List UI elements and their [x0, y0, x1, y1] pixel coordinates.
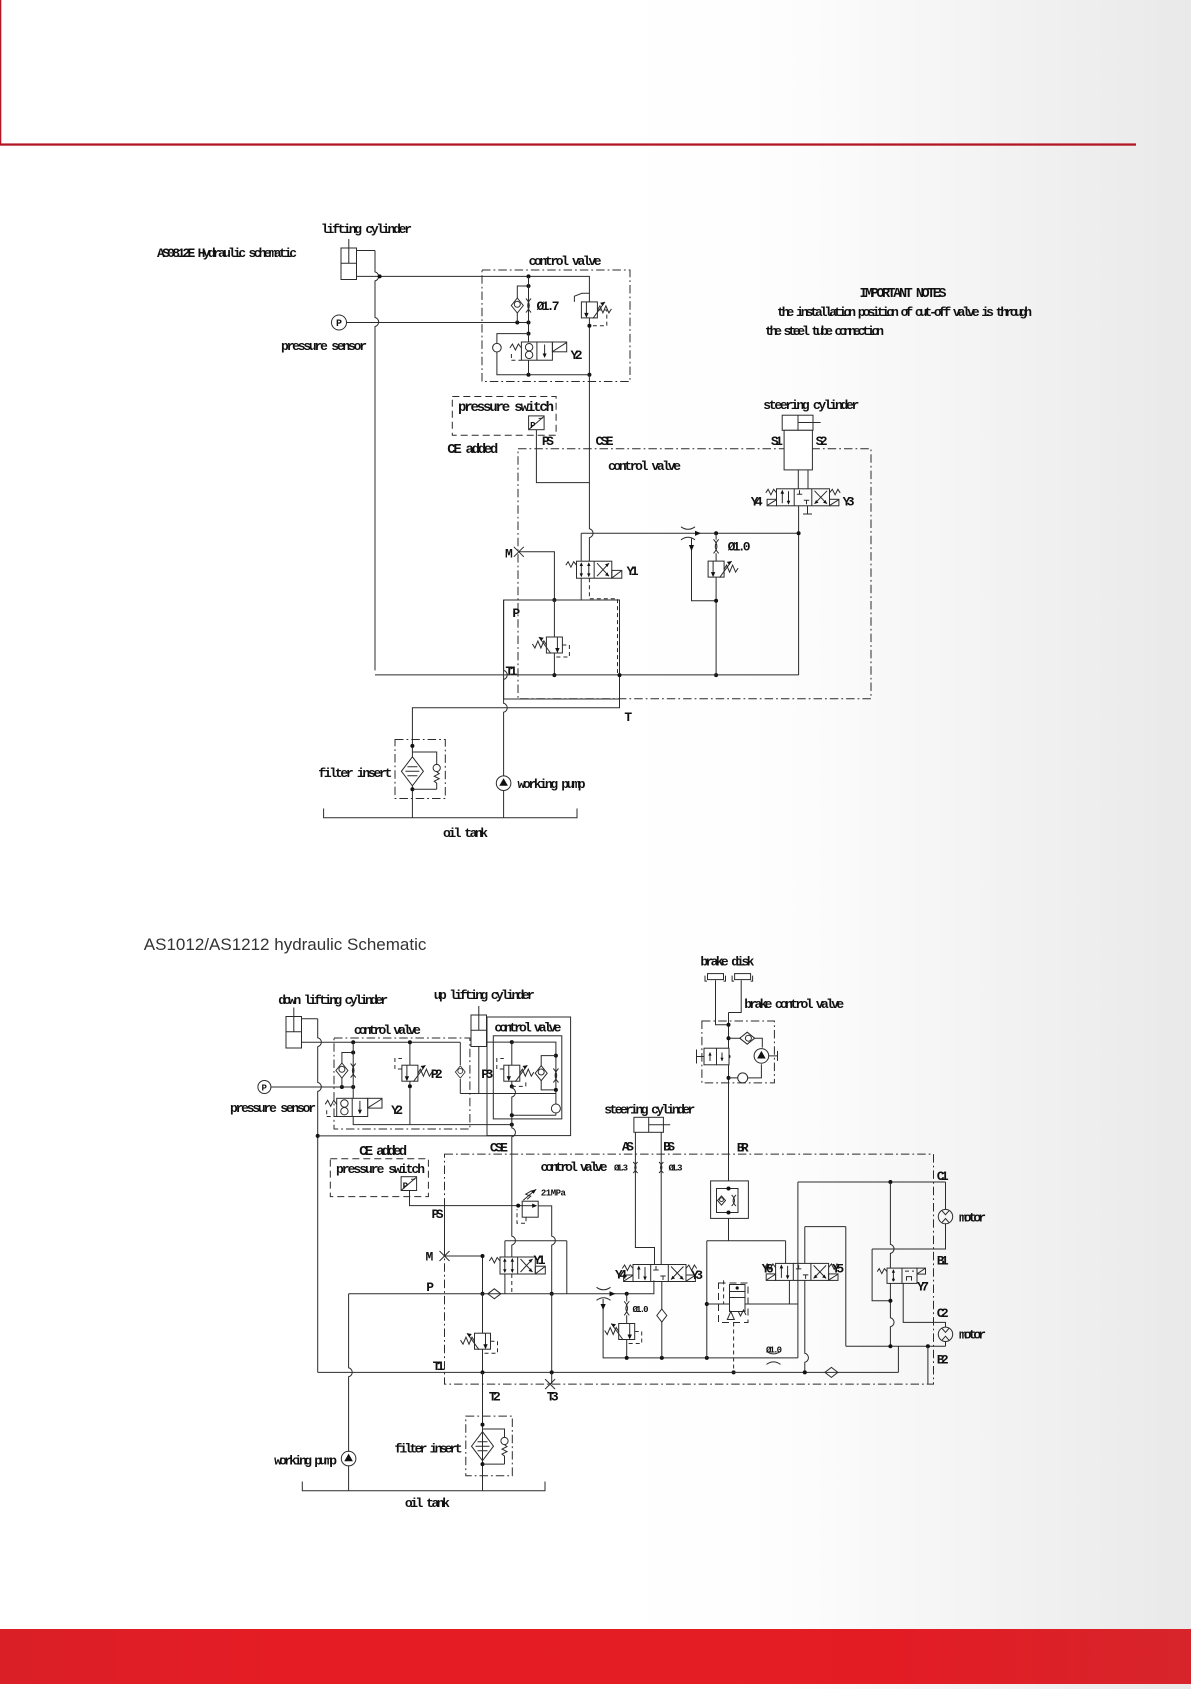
- svg-text:S2: S2: [816, 434, 828, 449]
- svg-text:P2: P2: [431, 1067, 443, 1082]
- svg-text:pressure sensor: pressure sensor: [230, 1101, 316, 1116]
- svg-text:IMPORTANT NOTES: IMPORTANT NOTES: [860, 287, 947, 302]
- svg-text:C2: C2: [937, 1306, 949, 1321]
- svg-text:control valve: control valve: [529, 254, 602, 269]
- svg-text:21MPa: 21MPa: [541, 1189, 567, 1199]
- svg-text:filter insert: filter insert: [395, 1442, 463, 1457]
- svg-text:PS: PS: [432, 1207, 444, 1222]
- svg-text:C1: C1: [937, 1169, 949, 1184]
- svg-text:working pump: working pump: [518, 777, 586, 792]
- svg-text:Y3: Y3: [691, 1268, 703, 1283]
- svg-text:oil tank: oil tank: [405, 1496, 450, 1511]
- svg-text:Y4: Y4: [751, 495, 763, 510]
- svg-text:BS: BS: [663, 1140, 675, 1155]
- svg-text:steering cylinder: steering cylinder: [604, 1103, 695, 1118]
- svg-text:down lifting cylinder: down lifting cylinder: [278, 993, 388, 1008]
- svg-text:T1: T1: [433, 1359, 445, 1374]
- svg-text:M: M: [426, 1250, 434, 1265]
- svg-text:Y1: Y1: [534, 1253, 546, 1268]
- svg-text:Ø1.0: Ø1.0: [766, 1346, 782, 1356]
- svg-text:Ø1.3: Ø1.3: [614, 1164, 628, 1174]
- svg-text:oil tank: oil tank: [443, 826, 488, 841]
- svg-text:brake disk: brake disk: [700, 955, 754, 970]
- svg-text:Y4: Y4: [615, 1268, 627, 1283]
- svg-text:the installation position of c: the installation position of cut-off val…: [777, 305, 1032, 320]
- svg-text:lifting cylinder: lifting cylinder: [321, 222, 412, 237]
- svg-text:S1: S1: [771, 434, 783, 449]
- svg-text:B2: B2: [937, 1353, 949, 1368]
- svg-text:Y1: Y1: [627, 564, 639, 579]
- svg-text:pressure switch: pressure switch: [336, 1162, 425, 1177]
- svg-text:filter insert: filter insert: [318, 766, 392, 781]
- svg-text:Y3: Y3: [843, 495, 855, 510]
- svg-text:P3: P3: [481, 1067, 493, 1082]
- svg-text:T2: T2: [489, 1390, 501, 1405]
- svg-text:Ø1.3: Ø1.3: [669, 1164, 683, 1174]
- svg-text:working pump: working pump: [274, 1454, 337, 1469]
- svg-text:Y5: Y5: [832, 1262, 844, 1277]
- svg-text:T: T: [624, 710, 632, 725]
- svg-text:Y2: Y2: [571, 348, 583, 363]
- svg-text:P: P: [426, 1280, 434, 1295]
- svg-text:BR: BR: [737, 1141, 749, 1156]
- svg-text:up lifting cylinder: up lifting cylinder: [434, 988, 535, 1003]
- svg-text:CE added: CE added: [359, 1144, 407, 1160]
- svg-text:AS1012/AS1212 hydraulic Schema: AS1012/AS1212 hydraulic Schematic: [144, 935, 427, 954]
- svg-text:Ø1.7: Ø1.7: [537, 299, 560, 314]
- svg-text:the steel tube connection: the steel tube connection: [765, 324, 884, 339]
- svg-text:P: P: [336, 319, 342, 330]
- svg-text:CSE: CSE: [596, 434, 614, 449]
- svg-text:T3: T3: [547, 1390, 559, 1405]
- svg-text:Ø1.0: Ø1.0: [728, 540, 751, 555]
- svg-text:motor: motor: [959, 1211, 986, 1226]
- svg-text:brake control valve: brake control valve: [744, 997, 844, 1012]
- svg-text:motor: motor: [959, 1328, 986, 1343]
- svg-text:CE added: CE added: [447, 442, 498, 458]
- svg-text:CSE: CSE: [490, 1141, 508, 1156]
- svg-text:Y6: Y6: [762, 1262, 774, 1277]
- svg-text:Y7: Y7: [917, 1280, 929, 1295]
- svg-text:B1: B1: [937, 1254, 949, 1269]
- svg-text:PS: PS: [542, 434, 554, 449]
- svg-text:steering cylinder: steering cylinder: [763, 398, 859, 413]
- svg-text:Ø1.0: Ø1.0: [633, 1305, 649, 1315]
- svg-text:P: P: [262, 1084, 268, 1094]
- svg-text:control valve: control valve: [494, 1021, 561, 1036]
- svg-text:AS0812E Hydraulic schematic: AS0812E Hydraulic schematic: [157, 246, 297, 261]
- svg-text:control valve: control valve: [608, 459, 681, 474]
- svg-text:pressure switch: pressure switch: [458, 400, 554, 416]
- svg-text:control valve: control valve: [354, 1023, 421, 1038]
- svg-text:pressure sensor: pressure sensor: [281, 339, 367, 354]
- svg-text:AS: AS: [622, 1140, 634, 1155]
- svg-text:M: M: [505, 547, 513, 562]
- svg-text:control valve: control valve: [541, 1160, 608, 1175]
- svg-text:Y2: Y2: [391, 1103, 403, 1118]
- svg-text:P: P: [512, 606, 520, 621]
